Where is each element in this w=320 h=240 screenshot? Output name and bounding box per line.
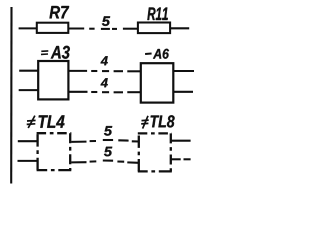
left bus wire [10,7,12,184]
wire dashed net 5 row3 top [90,140,129,141]
label R11 [147,8,167,21]
wire to R11 [123,28,138,30]
wire to A6 pin 2 [127,91,141,93]
digital symbol of TL8 (not-equal) [141,116,149,129]
wire dashed net 4 bottom [91,91,123,93]
label R7 [50,6,70,18]
digital symbol of TL4 (not-equal) [27,116,36,128]
wire to A3 pin 2 [19,89,39,91]
wire from TL4 pin 3 (lead) [71,141,86,143]
wire dashed net 4 top [91,70,123,72]
wire to TL4 pin 2 [18,160,38,162]
wire dashed net 5 row3 bottom [90,161,125,162]
label 4 (bottom net) [101,78,108,87]
wire from TL8 pin 3 [172,140,191,142]
wire to R7 [19,27,37,29]
wire to A3 pin 1 [19,70,38,72]
label A3 [51,46,70,59]
label 5 (row1 net) [102,16,110,26]
wire to TL4 pin 1 [18,140,37,142]
wire from A3 pin 4 (lead) [68,91,87,93]
label 5 (row3 top net) [104,126,112,136]
wire to TL8 pin 2 [127,161,138,163]
wire dashed net 5 row1 [89,28,117,30]
wire from R11 [171,27,190,29]
wire to TL8 pin 1 [132,140,139,142]
analog symbol of A3 (=) [41,51,48,55]
wire to A6 pin 1 [127,70,141,72]
block A6 [141,63,174,102]
block A3 [38,61,68,99]
label A6 [153,49,169,59]
block TL4 (dash-dot outline) [37,133,72,170]
label 4 (top net) [101,56,108,65]
wire from A3 pin 3 (lead) [68,70,87,72]
label 5 (row3 bottom net) [104,147,112,157]
resistor R7 [37,23,69,33]
wire from A6 pin 3 [173,70,194,72]
wire from A6 pin 4 [173,91,193,93]
label TL4 [39,115,65,127]
wire from R7 (lead) [68,27,84,29]
analog symbol of A6 (-) [145,53,152,56]
wire from TL8 pin 4 [172,158,191,160]
resistor R11 [138,23,170,34]
label TL8 [151,115,175,127]
wire from TL4 pin 4 (lead) [71,161,86,163]
block TL8 (dash-dot outline) [138,133,172,171]
